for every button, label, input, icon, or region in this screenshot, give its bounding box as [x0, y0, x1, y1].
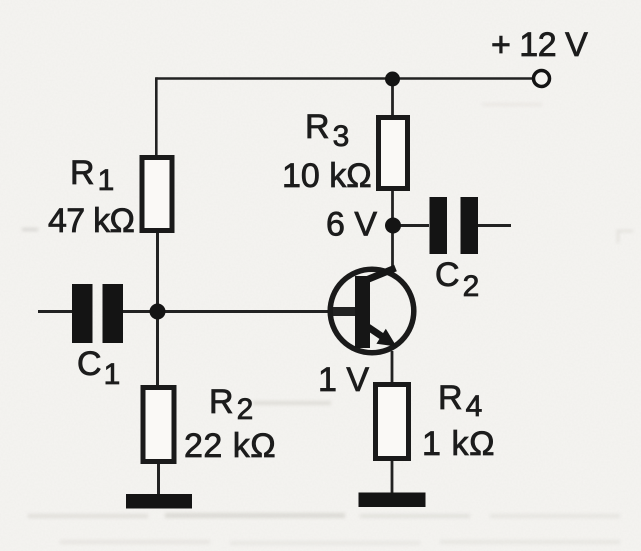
- svg-text:6 V: 6 V: [326, 206, 377, 244]
- svg-text:+ 12 V: + 12 V: [491, 26, 588, 64]
- svg-text:10 kΩ: 10 kΩ: [282, 157, 372, 195]
- svg-text:1 kΩ: 1 kΩ: [422, 425, 495, 463]
- svg-text:22 kΩ: 22 kΩ: [184, 427, 276, 465]
- svg-text:1 V: 1 V: [318, 361, 369, 399]
- svg-text:47 kΩ: 47 kΩ: [48, 202, 134, 240]
